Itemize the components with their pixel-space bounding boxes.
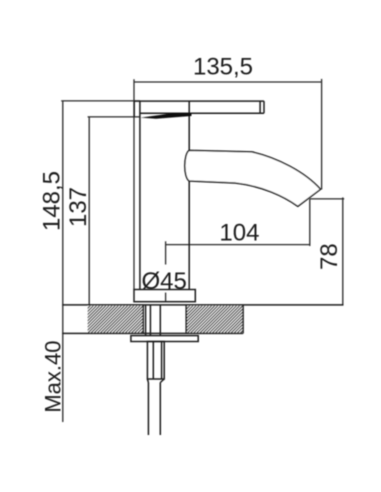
svg-text:148,5: 148,5 bbox=[39, 171, 66, 231]
svg-text:78: 78 bbox=[316, 243, 343, 270]
svg-text:104: 104 bbox=[219, 220, 259, 247]
svg-text:135,5: 135,5 bbox=[193, 53, 253, 80]
svg-text:Ø45: Ø45 bbox=[142, 268, 187, 295]
svg-text:Max.40: Max.40 bbox=[41, 341, 66, 413]
svg-text:137: 137 bbox=[65, 187, 92, 227]
